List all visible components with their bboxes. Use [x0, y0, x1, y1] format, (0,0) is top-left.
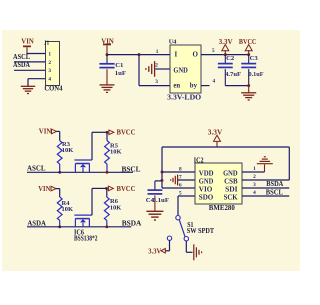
svg-text:VIN: VIN — [38, 185, 50, 193]
svg-text:8: 8 — [179, 167, 182, 173]
svg-text:3.3V: 3.3V — [148, 247, 161, 255]
svg-text:CSB: CSB — [224, 178, 238, 186]
svg-text:IC2: IC2 — [194, 156, 204, 164]
svg-text:ASDA: ASDA — [27, 219, 46, 227]
svg-text:4: 4 — [253, 190, 256, 196]
svg-text:BSDA: BSDA — [122, 220, 142, 228]
svg-text:5: 5 — [179, 191, 182, 197]
svg-text:BVCC: BVCC — [117, 185, 136, 193]
svg-text:VIN: VIN — [39, 128, 52, 136]
svg-text:10K: 10K — [62, 206, 74, 213]
svg-text:3.3V-LDO: 3.3V-LDO — [167, 94, 202, 102]
svg-text:GND: GND — [173, 67, 188, 74]
svg-text:by: by — [190, 82, 198, 89]
svg-text:ASCL: ASCL — [13, 53, 30, 61]
svg-text:ASCL: ASCL — [27, 164, 46, 172]
svg-text:CON4: CON4 — [44, 85, 62, 93]
svg-text:3.3V: 3.3V — [208, 128, 223, 136]
svg-text:GND: GND — [199, 178, 214, 186]
svg-text:ASDA: ASDA — [13, 61, 30, 69]
svg-text:2: 2 — [155, 62, 158, 68]
svg-text:GND: GND — [223, 170, 238, 178]
svg-text:1: 1 — [156, 49, 159, 55]
svg-text:4: 4 — [48, 77, 51, 83]
svg-text:10K: 10K — [110, 149, 122, 156]
svg-text:U4: U4 — [169, 38, 177, 45]
svg-text:3: 3 — [48, 68, 51, 74]
svg-text:I: I — [175, 51, 178, 59]
svg-text:BVCC: BVCC — [239, 38, 257, 46]
svg-text:2: 2 — [48, 60, 51, 66]
svg-text:1: 1 — [253, 166, 256, 172]
svg-text:VIN: VIN — [21, 38, 34, 46]
svg-text:3: 3 — [155, 79, 158, 85]
svg-text:C1: C1 — [115, 62, 123, 69]
svg-text:BVCC: BVCC — [117, 129, 136, 137]
svg-text:6: 6 — [179, 183, 182, 189]
svg-text:2: 2 — [253, 174, 256, 180]
svg-text:1: 1 — [48, 51, 51, 57]
svg-text:C2: C2 — [226, 55, 235, 62]
svg-text:en: en — [173, 82, 180, 89]
svg-text:BSCL: BSCL — [266, 188, 283, 196]
svg-text:0.1uF: 0.1uF — [249, 71, 264, 78]
svg-text:SCK: SCK — [224, 194, 238, 202]
svg-text:BSCL: BSCL — [122, 165, 141, 173]
svg-text:VDD: VDD — [199, 170, 214, 178]
svg-text:5: 5 — [212, 48, 215, 54]
svg-text:1uF: 1uF — [115, 70, 126, 77]
svg-text:10K: 10K — [110, 204, 122, 211]
svg-text:SDI: SDI — [225, 186, 238, 194]
svg-text:SDO: SDO — [199, 194, 214, 202]
svg-text:4: 4 — [213, 79, 216, 85]
svg-text:J1: J1 — [44, 39, 50, 46]
svg-text:7: 7 — [179, 175, 182, 181]
svg-text:BSDA: BSDA — [266, 180, 283, 188]
svg-text:3: 3 — [253, 182, 256, 188]
svg-text:SW SPDT: SW SPDT — [187, 227, 215, 235]
svg-text:C3: C3 — [250, 55, 259, 62]
svg-text:O: O — [193, 51, 199, 59]
svg-text:BME280: BME280 — [209, 204, 235, 212]
svg-text:4.7uF: 4.7uF — [225, 71, 241, 78]
svg-text:10K: 10K — [62, 147, 74, 154]
svg-text:VIO: VIO — [199, 186, 213, 194]
svg-text:BSS138*2: BSS138*2 — [74, 235, 98, 243]
svg-text:0.1uF: 0.1uF — [153, 197, 170, 204]
